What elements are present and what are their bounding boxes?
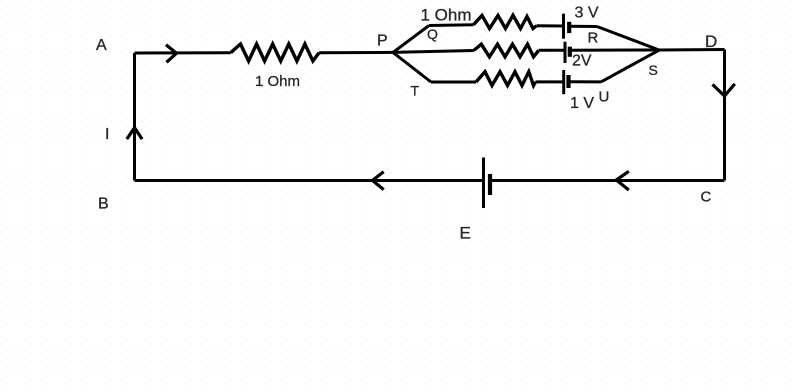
wire battery E to B (bottom left segment): [135, 179, 484, 182]
svg-text:U: U: [599, 89, 610, 106]
node label C: [701, 189, 712, 206]
current arrow on right wire (pointing down): [713, 84, 735, 96]
battery 3 V (short plate): [567, 22, 571, 33]
svg-text:1 Ohm: 1 Ohm: [421, 6, 472, 25]
wire C to battery E (bottom right segment): [490, 179, 725, 182]
svg-text:E: E: [460, 224, 471, 243]
resistor 1 Ohm (middle branch): [474, 44, 539, 57]
value label 1 Ohm (top branch): [421, 6, 472, 25]
current arrow on bottom wire right (pointing left): [616, 171, 629, 190]
wire top resistor to battery 3V: [537, 24, 564, 27]
current arrow I (pointing up, left wire): [127, 128, 142, 139]
wire Q to top resistor: [429, 23, 474, 27]
current arrow on top wire (pointing right): [166, 45, 177, 63]
svg-text:1 V: 1 V: [570, 95, 594, 112]
battery 1 V (short plate): [566, 75, 570, 88]
svg-text:A: A: [96, 37, 107, 54]
value label 3 V: [575, 5, 599, 22]
current arrow on bottom wire left (pointing left): [372, 172, 383, 190]
node label S: [649, 62, 658, 78]
node label R: [588, 30, 599, 47]
wire middle resistor to battery 2V: [539, 49, 565, 52]
node label T: [411, 83, 420, 99]
value label 2V: [572, 53, 592, 70]
battery E (short plate): [488, 174, 492, 195]
svg-text:R: R: [588, 30, 599, 47]
svg-text:I: I: [105, 126, 109, 143]
svg-text:1 Ohm: 1 Ohm: [255, 73, 300, 90]
wire kink to node S (bottom branch diagonal): [601, 50, 659, 82]
node label D: [705, 32, 717, 51]
battery 2V (long plate): [564, 42, 567, 63]
wire battery 2V to node S: [570, 49, 659, 52]
wire kink to node S (top branch diagonal): [597, 27, 659, 51]
svg-text:D: D: [705, 32, 717, 51]
svg-text:P: P: [377, 33, 388, 50]
svg-text:C: C: [701, 189, 712, 206]
battery E (long plate): [482, 158, 485, 209]
svg-text:B: B: [98, 196, 109, 213]
value label 1 V: [570, 95, 594, 112]
battery 1 V (long plate): [562, 70, 565, 94]
node label A: [96, 37, 107, 54]
wire battery 3V to kink: [569, 25, 597, 28]
node label P: [377, 33, 388, 50]
wire bottom resistor to battery 1V: [536, 80, 564, 83]
svg-text:S: S: [649, 62, 658, 78]
battery label E: [460, 224, 471, 243]
wire node S to D: [659, 48, 725, 52]
wire resistor to node P: [319, 51, 393, 54]
svg-text:Q: Q: [427, 26, 438, 42]
wire A to resistor (top left segment): [135, 51, 231, 54]
value label 1 Ohm (series resistor): [255, 73, 300, 90]
battery 3 V (long plate): [562, 14, 565, 39]
wire right side D to C (vertical): [723, 50, 726, 181]
wire P to middle resistor: [393, 51, 474, 53]
node label Q: [427, 26, 438, 42]
resistor 1 Ohm (top branch): [474, 15, 537, 28]
wire P to Q (upper fan-out diagonal): [393, 26, 429, 53]
svg-text:2V: 2V: [572, 53, 592, 70]
wire left side B to A (vertical): [133, 53, 136, 181]
resistor 1 Ohm (series, between A and P): [231, 44, 319, 61]
node label U: [599, 89, 610, 106]
svg-text:T: T: [411, 83, 420, 99]
resistor 1 Ohm (bottom branch): [476, 72, 536, 86]
battery 2V (short plate): [568, 47, 572, 57]
wire P to T (lower fan-out diagonal): [393, 52, 431, 82]
svg-text:3 V: 3 V: [575, 5, 599, 22]
node label B: [98, 196, 109, 213]
current label I: [105, 126, 109, 143]
wire T to bottom resistor: [431, 81, 476, 84]
wire battery 1V to kink: [569, 80, 602, 83]
